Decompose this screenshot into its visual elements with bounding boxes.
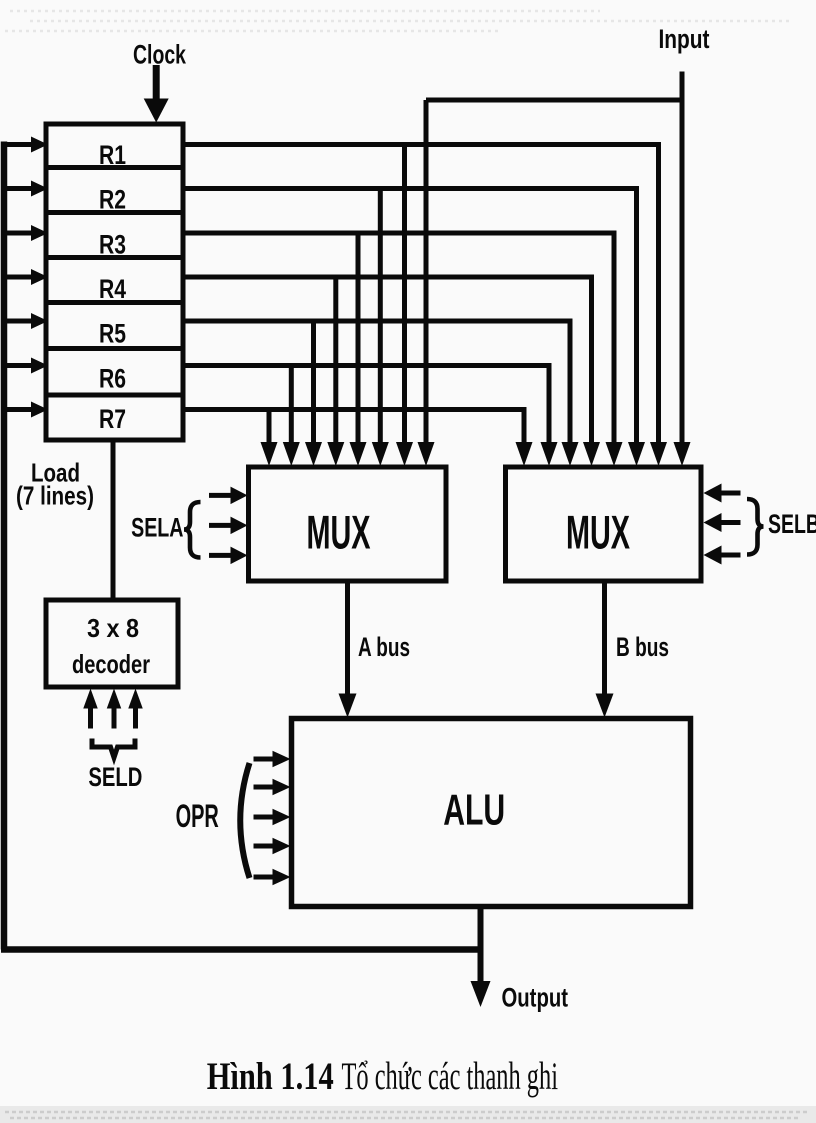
svg-text:R7: R7 [99,404,126,434]
svg-text:B bus: B bus [616,632,669,662]
svg-text:ALU: ALU [443,787,505,835]
svg-text:A bus: A bus [358,632,410,662]
svg-text:OPR: OPR [176,798,219,834]
svg-text:MUX: MUX [566,507,630,560]
svg-text:Hình 1.14: Hình 1.14 [207,1055,334,1098]
svg-text:SELA: SELA [131,513,183,543]
svg-text:Tổ chức các thanh ghi: Tổ chức các thanh ghi [342,1055,559,1098]
svg-text:SELD: SELD [88,762,142,792]
svg-text:Input: Input [659,24,710,54]
svg-text:Output: Output [502,983,569,1013]
svg-text:MUX: MUX [307,507,371,560]
svg-text:R3: R3 [99,229,126,259]
svg-text:SELB: SELB [768,509,816,539]
svg-text:R4: R4 [99,274,126,304]
svg-text:decoder: decoder [72,649,150,679]
svg-text:R1: R1 [99,140,126,170]
svg-text:R5: R5 [99,319,126,349]
svg-text:3 x 8: 3 x 8 [87,613,139,643]
svg-text:Clock: Clock [133,40,187,70]
svg-text:R2: R2 [99,185,126,215]
svg-text:R6: R6 [99,363,126,393]
svg-text:(7 lines): (7 lines) [16,481,94,511]
